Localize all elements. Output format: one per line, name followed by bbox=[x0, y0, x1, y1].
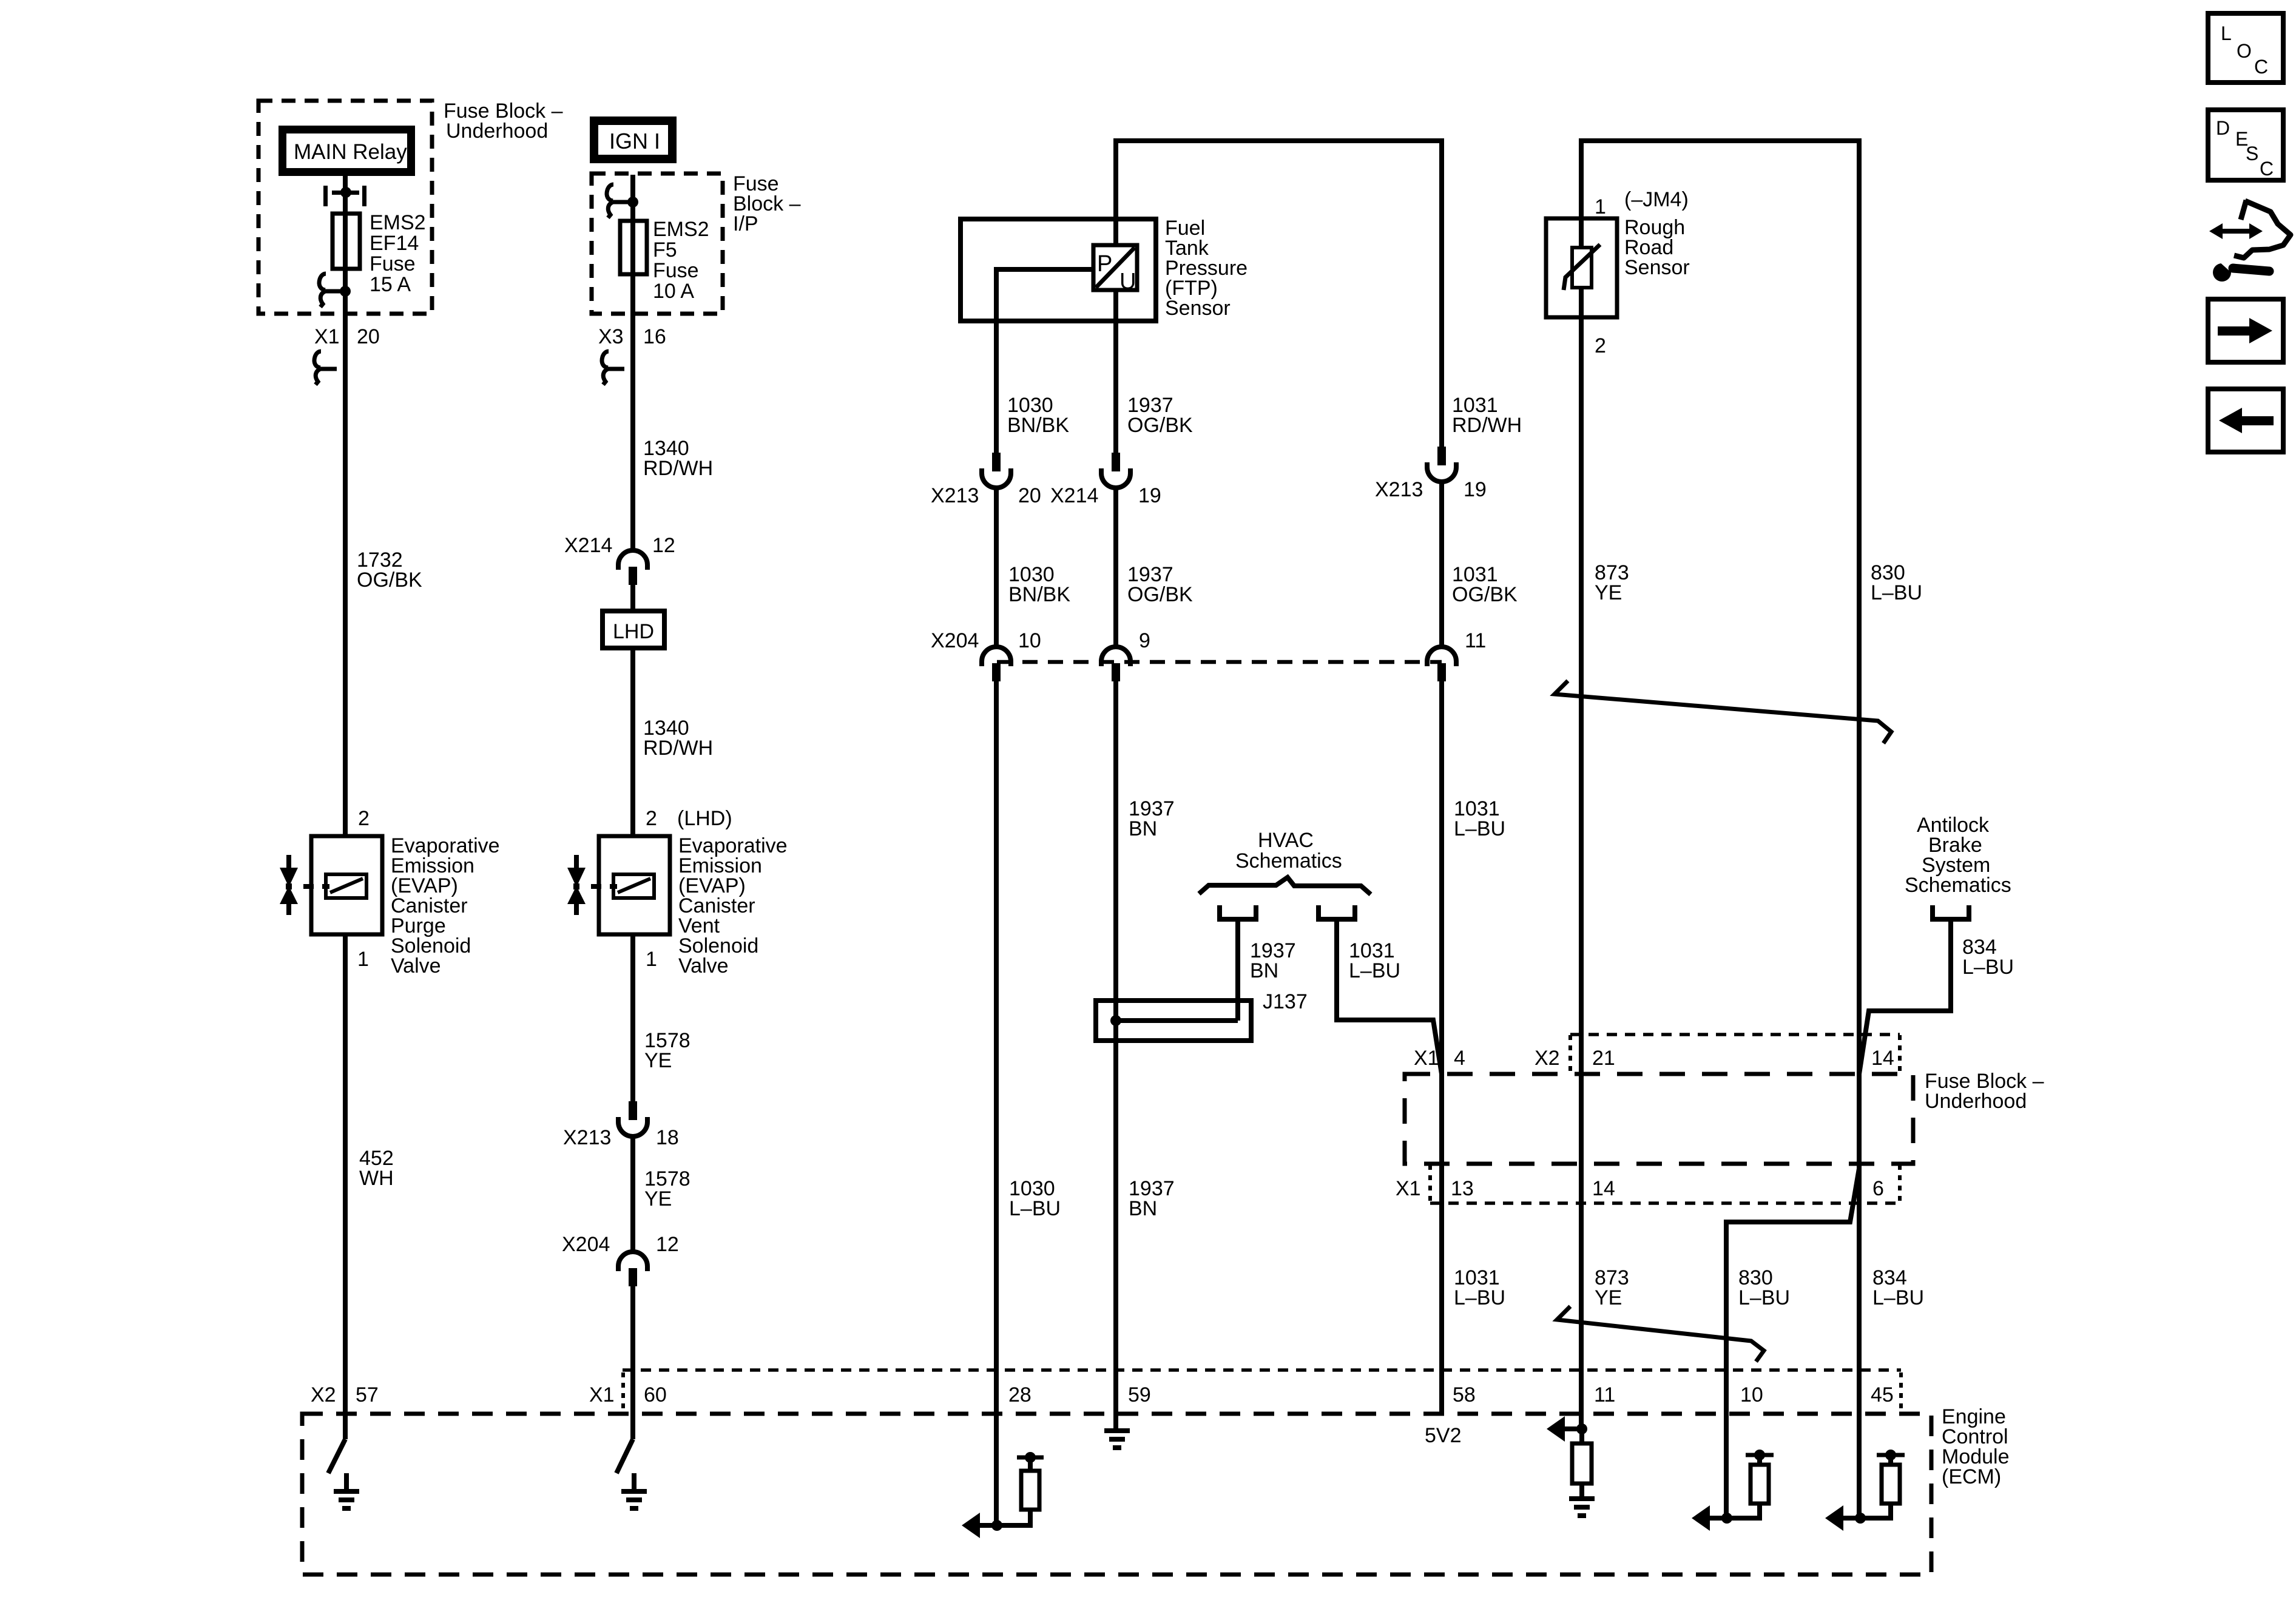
svg-text:X214: X214 bbox=[564, 534, 612, 557]
svg-text:D: D bbox=[2216, 117, 2230, 139]
svg-text:RD/WH: RD/WH bbox=[1452, 414, 1522, 437]
svg-text:Fuse: Fuse bbox=[653, 259, 699, 282]
svg-text:19: 19 bbox=[1464, 478, 1487, 501]
svg-text:Schematics: Schematics bbox=[1905, 874, 2011, 897]
svg-text:BN/BK: BN/BK bbox=[1008, 583, 1070, 606]
svg-text:OG/BK: OG/BK bbox=[357, 569, 422, 592]
svg-text:L–BU: L–BU bbox=[1454, 1286, 1505, 1309]
svg-text:10: 10 bbox=[1740, 1383, 1763, 1406]
svg-text:X213: X213 bbox=[1375, 478, 1423, 501]
svg-text:18: 18 bbox=[656, 1126, 679, 1149]
svg-text:X214: X214 bbox=[1050, 484, 1098, 507]
svg-text:Schematics: Schematics bbox=[1235, 849, 1342, 873]
svg-text:14: 14 bbox=[1871, 1047, 1894, 1070]
svg-text:X213: X213 bbox=[931, 484, 979, 507]
svg-text:P: P bbox=[1097, 251, 1112, 277]
svg-text:Sensor: Sensor bbox=[1624, 256, 1690, 279]
svg-text:1: 1 bbox=[646, 948, 657, 971]
svg-text:O: O bbox=[2237, 40, 2252, 62]
svg-text:X204: X204 bbox=[562, 1233, 610, 1256]
svg-text:YE: YE bbox=[1595, 581, 1622, 604]
svg-text:L–BU: L–BU bbox=[1454, 817, 1505, 840]
svg-text:F5: F5 bbox=[653, 238, 677, 262]
svg-text:9: 9 bbox=[1139, 629, 1150, 652]
svg-text:OG/BK: OG/BK bbox=[1127, 583, 1193, 606]
svg-text:(ECM): (ECM) bbox=[1942, 1465, 2001, 1488]
svg-text:Underhood: Underhood bbox=[1925, 1090, 2027, 1113]
svg-text:EMS2: EMS2 bbox=[370, 211, 426, 234]
svg-text:S: S bbox=[2246, 143, 2258, 164]
svg-text:L: L bbox=[2221, 22, 2232, 44]
svg-text:2: 2 bbox=[646, 807, 657, 830]
svg-text:57: 57 bbox=[356, 1383, 379, 1406]
svg-text:WH: WH bbox=[359, 1167, 394, 1190]
svg-text:U: U bbox=[1119, 269, 1136, 294]
svg-text:19: 19 bbox=[1138, 484, 1161, 507]
svg-text:L–BU: L–BU bbox=[1871, 581, 1922, 604]
svg-text:10 A: 10 A bbox=[653, 280, 694, 303]
svg-text:20: 20 bbox=[1018, 484, 1041, 507]
svg-text:X204: X204 bbox=[931, 629, 979, 652]
svg-text:HVAC: HVAC bbox=[1258, 829, 1314, 852]
svg-text:X1: X1 bbox=[1414, 1047, 1439, 1070]
svg-text:X2: X2 bbox=[1535, 1047, 1560, 1070]
svg-text:2: 2 bbox=[358, 807, 370, 830]
svg-text:OG/BK: OG/BK bbox=[1127, 414, 1193, 437]
svg-text:2: 2 bbox=[1595, 334, 1606, 357]
svg-text:Valve: Valve bbox=[678, 954, 729, 977]
svg-text:I/P: I/P bbox=[733, 212, 758, 235]
svg-text:45: 45 bbox=[1871, 1383, 1894, 1406]
svg-text:12: 12 bbox=[656, 1233, 679, 1256]
svg-text:EMS2: EMS2 bbox=[653, 218, 709, 241]
svg-text:(–JM4): (–JM4) bbox=[1624, 188, 1689, 211]
svg-text:LHD: LHD bbox=[613, 620, 654, 643]
svg-text:1: 1 bbox=[357, 948, 369, 971]
svg-text:58: 58 bbox=[1453, 1383, 1476, 1406]
svg-text:12: 12 bbox=[652, 534, 675, 557]
svg-text:X1: X1 bbox=[1396, 1177, 1421, 1200]
svg-text:BN: BN bbox=[1129, 1197, 1157, 1220]
svg-text:13: 13 bbox=[1451, 1177, 1474, 1200]
svg-text:C: C bbox=[2254, 56, 2268, 78]
svg-text:4: 4 bbox=[1454, 1047, 1465, 1070]
svg-text:C: C bbox=[2260, 158, 2274, 180]
svg-text:59: 59 bbox=[1128, 1383, 1151, 1406]
svg-text:11: 11 bbox=[1594, 1383, 1615, 1406]
svg-text:1: 1 bbox=[1595, 195, 1606, 218]
svg-text:X3: X3 bbox=[598, 325, 624, 348]
svg-text:16: 16 bbox=[643, 325, 666, 348]
svg-text:20: 20 bbox=[357, 325, 380, 348]
svg-text:YE: YE bbox=[644, 1187, 672, 1210]
svg-text:15 A: 15 A bbox=[370, 273, 411, 296]
svg-text:10: 10 bbox=[1018, 629, 1041, 652]
svg-text:EF14: EF14 bbox=[370, 232, 419, 255]
svg-text:X213: X213 bbox=[563, 1126, 611, 1149]
svg-text:YE: YE bbox=[644, 1049, 672, 1072]
svg-text:Fuse: Fuse bbox=[370, 252, 416, 275]
svg-text:IGN I: IGN I bbox=[609, 129, 660, 154]
svg-text:BN/BK: BN/BK bbox=[1007, 414, 1069, 437]
svg-text:Valve: Valve bbox=[391, 954, 441, 977]
svg-text:L–BU: L–BU bbox=[1349, 959, 1400, 982]
svg-text:60: 60 bbox=[644, 1383, 667, 1406]
svg-text:L–BU: L–BU bbox=[1872, 1286, 1924, 1309]
svg-text:RD/WH: RD/WH bbox=[643, 737, 713, 760]
svg-text:14: 14 bbox=[1592, 1177, 1615, 1200]
svg-text:21: 21 bbox=[1592, 1047, 1615, 1070]
svg-text:5V2: 5V2 bbox=[1425, 1424, 1462, 1447]
svg-text:BN: BN bbox=[1129, 817, 1157, 840]
svg-text:YE: YE bbox=[1595, 1286, 1622, 1309]
svg-text:X1: X1 bbox=[314, 325, 340, 348]
svg-text:Underhood: Underhood bbox=[446, 120, 548, 143]
svg-text:J137: J137 bbox=[1263, 990, 1308, 1013]
svg-text:L–BU: L–BU bbox=[1962, 956, 2014, 979]
svg-text:OG/BK: OG/BK bbox=[1452, 583, 1518, 606]
svg-text:28: 28 bbox=[1008, 1383, 1032, 1406]
svg-text:L–BU: L–BU bbox=[1009, 1197, 1061, 1220]
svg-text:RD/WH: RD/WH bbox=[643, 457, 713, 480]
svg-text:(LHD): (LHD) bbox=[677, 807, 732, 830]
svg-text:L–BU: L–BU bbox=[1738, 1286, 1790, 1309]
svg-text:11: 11 bbox=[1465, 629, 1486, 652]
svg-text:6: 6 bbox=[1872, 1177, 1884, 1200]
svg-text:MAIN Relay: MAIN Relay bbox=[294, 140, 407, 164]
svg-text:X2: X2 bbox=[311, 1383, 336, 1406]
svg-text:X1: X1 bbox=[589, 1383, 615, 1406]
svg-text:BN: BN bbox=[1250, 959, 1278, 982]
svg-text:Sensor: Sensor bbox=[1165, 297, 1231, 320]
